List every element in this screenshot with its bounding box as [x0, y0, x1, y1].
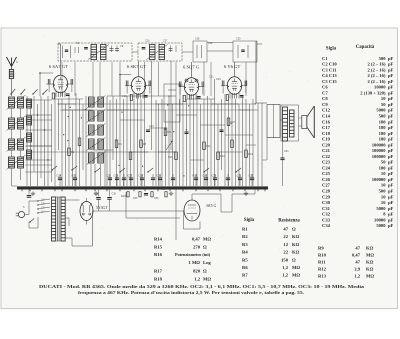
svg-text:KΩ: KΩ [292, 234, 300, 239]
svg-text:C28: C28 [322, 189, 331, 194]
svg-text:Ω: Ω [203, 245, 207, 250]
svg-text:150: 150 [281, 257, 289, 262]
svg-text:100000: 100000 [372, 148, 386, 153]
svg-text:270: 270 [193, 245, 201, 250]
svg-text:100: 100 [379, 165, 387, 170]
svg-text:C17: C17 [163, 40, 168, 43]
svg-text:10000: 10000 [374, 85, 386, 90]
svg-text:C31: C31 [322, 206, 331, 211]
svg-text:C26: C26 [322, 177, 331, 182]
svg-text:C31: C31 [284, 150, 289, 153]
svg-text:10: 10 [381, 183, 386, 188]
svg-text:2 (130 + 320): 2 (130 + 320) [360, 90, 386, 95]
svg-text:Log: Log [203, 260, 211, 265]
svg-text:C32: C32 [322, 212, 331, 217]
svg-text:R12: R12 [220, 155, 225, 158]
svg-text:C20: C20 [236, 38, 241, 41]
svg-text:R18: R18 [154, 277, 163, 282]
svg-text:KΩ: KΩ [366, 246, 374, 251]
svg-text:500: 500 [379, 56, 387, 61]
svg-text:C3 C11: C3 C11 [322, 67, 337, 72]
svg-text:C17: C17 [322, 125, 331, 130]
svg-text:pF: pF [388, 90, 394, 95]
svg-text:C32: C32 [161, 188, 166, 191]
svg-text:C23: C23 [322, 160, 331, 165]
svg-text:2 (2 – 16): 2 (2 – 16) [368, 79, 386, 84]
svg-text:pF: pF [388, 206, 394, 211]
svg-text:R15: R15 [154, 245, 163, 250]
svg-text:C16: C16 [322, 119, 331, 124]
svg-text:C12: C12 [322, 108, 331, 113]
svg-text:Sigla: Sigla [326, 47, 337, 52]
svg-text:C19: C19 [322, 137, 331, 142]
svg-text:C17: C17 [128, 175, 133, 178]
svg-text:C33: C33 [322, 217, 331, 222]
svg-text:47: 47 [283, 227, 288, 232]
svg-text:Ω: Ω [292, 227, 296, 232]
svg-text:R13: R13 [248, 153, 253, 156]
svg-text:3,9: 3,9 [354, 267, 360, 272]
svg-text:2 (2 – 16): 2 (2 – 16) [368, 62, 386, 67]
svg-text:R12: R12 [318, 267, 327, 272]
svg-text:pF: pF [388, 160, 394, 165]
svg-text:MΩ: MΩ [292, 273, 300, 278]
svg-text:pF: pF [388, 62, 394, 67]
svg-text:pF: pF [388, 217, 394, 222]
svg-text:22: 22 [283, 234, 288, 239]
svg-text:R7: R7 [242, 273, 248, 278]
svg-text:6E5 G: 6E5 G [207, 204, 217, 208]
svg-text:pF: pF [388, 67, 394, 72]
svg-text:C34: C34 [322, 223, 331, 228]
svg-text:µF: µF [388, 212, 394, 217]
svg-text:R9: R9 [318, 246, 324, 251]
svg-text:pF: pF [388, 131, 394, 136]
svg-text:Potenziometro (int): Potenziometro (int) [175, 252, 211, 257]
svg-text:C23: C23 [149, 125, 154, 128]
svg-text:22: 22 [283, 250, 288, 255]
svg-text:R13: R13 [318, 274, 327, 279]
svg-text:DUCATI - Mod. RR 4365. Onde me: DUCATI - Mod. RR 4365. Onde medie da 529… [39, 284, 365, 289]
svg-text:KΩ: KΩ [292, 250, 300, 255]
svg-text:MΩ: MΩ [366, 253, 374, 258]
svg-text:R18: R18 [121, 195, 126, 198]
svg-text:12: 12 [283, 242, 288, 247]
svg-text:Sigla: Sigla [244, 218, 255, 223]
svg-text:1,2: 1,2 [282, 265, 288, 270]
svg-text:pF: pF [388, 114, 394, 119]
svg-text:R4: R4 [242, 250, 248, 255]
svg-text:pF: pF [388, 56, 394, 61]
svg-text:R11: R11 [206, 145, 211, 148]
svg-text:C18: C18 [322, 131, 331, 136]
svg-text:6 V6 GT: 6 V6 GT [224, 64, 240, 69]
svg-text:47: 47 [355, 246, 360, 251]
svg-text:10: 10 [381, 171, 386, 176]
svg-text:500: 500 [379, 114, 387, 119]
svg-text:5000: 5000 [376, 108, 386, 113]
svg-text:C21: C21 [322, 148, 331, 153]
svg-text:pF: pF [388, 137, 394, 142]
svg-text:C14: C14 [57, 175, 62, 178]
svg-text:C5 C15: C5 C15 [322, 79, 337, 84]
svg-text:pF: pF [388, 96, 394, 101]
svg-text:C27: C27 [231, 121, 236, 124]
svg-text:2 (2 – 16): 2 (2 – 16) [368, 67, 386, 72]
svg-text:C25: C25 [322, 171, 331, 176]
svg-text:C18: C18 [195, 38, 200, 41]
svg-text:pF: pF [388, 165, 394, 170]
svg-text:C22: C22 [322, 154, 331, 159]
svg-text:KΩ: KΩ [366, 260, 374, 265]
svg-text:2 (2 – 16): 2 (2 – 16) [368, 73, 386, 78]
svg-text:KΩ: KΩ [292, 242, 300, 247]
svg-text:R5: R5 [242, 257, 248, 262]
svg-text:frequenza a 467 KHz. Potenza d: frequenza a 467 KHz. Potenza d’uscita in… [78, 290, 304, 295]
svg-text:R16: R16 [168, 156, 173, 159]
svg-text:6 SK7 GT: 6 SK7 GT [127, 64, 146, 69]
svg-text:180: 180 [379, 119, 387, 124]
svg-text:pF: pF [388, 189, 394, 194]
svg-text:Ω: Ω [203, 269, 207, 274]
svg-text:R6: R6 [242, 265, 248, 270]
svg-text:500: 500 [379, 189, 387, 194]
svg-text:pF: pF [388, 223, 394, 228]
svg-text:16: 16 [381, 200, 386, 205]
svg-text:10: 10 [381, 194, 386, 199]
svg-text:pF: pF [388, 73, 394, 78]
svg-text:C22: C22 [249, 175, 254, 178]
svg-text:R14: R14 [154, 237, 163, 242]
svg-text:180: 180 [379, 131, 387, 136]
svg-text:R16: R16 [154, 252, 163, 257]
svg-text:C7: C7 [322, 90, 328, 95]
svg-text:MΩ: MΩ [292, 265, 300, 270]
svg-text:R1: R1 [242, 227, 248, 232]
svg-text:C20: C20 [157, 175, 162, 178]
svg-text:R3: R3 [242, 242, 248, 247]
svg-text:5Y3GT: 5Y3GT [96, 206, 108, 210]
svg-text:6 SA7 GT: 6 SA7 GT [49, 64, 68, 69]
svg-text:pF: pF [388, 79, 394, 84]
svg-text:R17: R17 [154, 269, 163, 274]
svg-text:MΩ: MΩ [366, 274, 374, 279]
svg-text:pF: pF [388, 154, 394, 159]
svg-text:1,2: 1,2 [194, 277, 200, 282]
svg-text:MΩ: MΩ [203, 237, 211, 242]
svg-text:C14: C14 [322, 114, 331, 119]
svg-text:µF: µF [388, 194, 394, 199]
svg-text:Resistenza: Resistenza [278, 219, 300, 224]
svg-text:180: 180 [379, 125, 387, 130]
svg-text:1 MΩ: 1 MΩ [189, 260, 201, 265]
svg-text:C27: C27 [322, 183, 331, 188]
svg-text:pF: pF [388, 183, 394, 188]
svg-text:R2: R2 [242, 234, 248, 239]
svg-text:pF: pF [388, 108, 394, 113]
svg-text:pF: pF [388, 125, 394, 130]
svg-text:C19: C19 [139, 175, 144, 178]
svg-text:pF: pF [388, 85, 394, 90]
svg-text:Ω: Ω [292, 257, 296, 262]
svg-text:C24: C24 [178, 85, 183, 88]
svg-text:C6: C6 [322, 85, 328, 90]
svg-text:pF: pF [388, 171, 394, 176]
svg-text:pF: pF [388, 119, 394, 124]
svg-text:R15: R15 [133, 197, 138, 200]
svg-text:C30: C30 [322, 200, 331, 205]
svg-text:1,2: 1,2 [282, 273, 288, 278]
svg-text:C8: C8 [322, 96, 328, 101]
svg-text:R10: R10 [193, 175, 198, 178]
svg-text:KΩ: KΩ [366, 267, 374, 272]
svg-text:0,47: 0,47 [352, 253, 361, 258]
svg-text:100000: 100000 [372, 177, 386, 182]
svg-text:C29: C29 [94, 193, 99, 196]
svg-text:µF: µF [388, 200, 394, 205]
svg-text:C29: C29 [322, 194, 331, 199]
svg-text:C21: C21 [237, 175, 242, 178]
svg-text:C4 C13: C4 C13 [322, 73, 337, 78]
svg-text:C16: C16 [145, 40, 150, 43]
svg-text:C18: C18 [122, 95, 127, 98]
svg-text:100000: 100000 [372, 142, 386, 147]
svg-text:5000: 5000 [376, 206, 386, 211]
svg-text:C2 C10: C2 C10 [322, 62, 337, 67]
svg-text:C21: C21 [209, 76, 214, 79]
svg-text:MΩ: MΩ [203, 277, 211, 282]
svg-text:50: 50 [381, 102, 386, 107]
svg-text:C1: C1 [322, 56, 328, 61]
svg-text:Capacità: Capacità [356, 45, 375, 50]
svg-text:100000: 100000 [372, 154, 386, 159]
svg-text:180: 180 [379, 137, 387, 142]
svg-text:C20: C20 [322, 142, 331, 147]
svg-text:R11: R11 [318, 260, 326, 265]
svg-text:pF: pF [388, 102, 394, 107]
svg-text:C16: C16 [114, 175, 119, 178]
svg-text:10000: 10000 [374, 217, 386, 222]
svg-text:C33: C33 [154, 197, 159, 200]
svg-text:1,2: 1,2 [354, 274, 360, 279]
svg-text:5000: 5000 [376, 223, 386, 228]
svg-text:pF: pF [388, 148, 394, 153]
svg-text:10: 10 [381, 96, 386, 101]
svg-text:C26: C26 [203, 175, 208, 178]
svg-text:C25: C25 [212, 175, 217, 178]
svg-text:47: 47 [355, 260, 360, 265]
svg-text:C30: C30 [112, 193, 117, 196]
svg-text:pF: pF [388, 177, 394, 182]
svg-text:pF: pF [388, 142, 394, 147]
svg-text:R10: R10 [318, 253, 327, 258]
svg-text:0,47: 0,47 [192, 237, 201, 242]
svg-text:C25: C25 [216, 78, 221, 81]
svg-text:50: 50 [381, 160, 386, 165]
svg-text:C24: C24 [322, 165, 331, 170]
svg-text:C9: C9 [322, 102, 328, 107]
svg-text:820: 820 [193, 269, 201, 274]
